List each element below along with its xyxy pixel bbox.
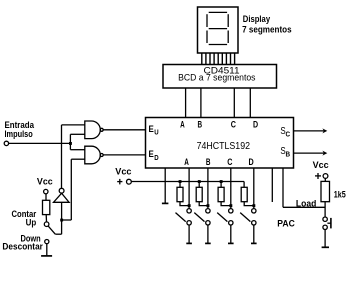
resistor R2 bottom lead [199,202,208,206]
switch S1 top contact [187,209,191,213]
resistor R5 body [43,200,50,214]
switch S2 top contact [206,209,210,213]
svg-text:Display: Display [243,14,270,24]
resistor R3 bottom lead [221,202,231,206]
resistor R6 1k5 body [321,181,330,201]
display segment d [209,44,227,46]
svg-text:A: A [184,157,189,167]
switch S2 arm [194,213,204,222]
wire junction vertical [69,134,71,149]
wire R6 down [324,202,326,217]
svg-text:C: C [227,157,233,167]
switch S3 arm [217,213,227,222]
resistor R5 lead bottom [45,215,47,222]
wire switch stub [55,233,61,235]
svg-text:A: A [180,120,185,130]
wire S3 to ground [230,225,232,243]
resistor R3 body [218,187,224,201]
switch S5 arm [48,226,55,234]
wire gate A upper input [62,124,85,126]
resistor R2 top lead [198,182,200,188]
wire pushbutton to ground [324,230,326,248]
wire to gate B upper input [70,149,84,151]
svg-text:D: D [253,120,258,130]
junction node R3 pin C [229,204,232,207]
svg-text:1k5: 1k5 [334,190,346,200]
display segment e [206,31,208,44]
svg-text:Vcc: Vcc [115,167,131,177]
ground pin wire mid [164,168,166,204]
nand gate U3A bubble [100,128,103,131]
junction node inverter output [60,219,63,222]
switch S1 bottom contact [187,221,191,225]
wire unused pin stub [271,168,273,202]
inverter U4 body [54,193,70,202]
display D1 body [198,7,239,53]
svg-text:C: C [231,120,237,130]
switch S4 arm [240,213,250,222]
wire load pin down [282,168,284,207]
ground bar below down contact [41,255,52,257]
ground bar S1 [186,242,192,244]
terminal Vcc contar [44,189,48,193]
wire CD4511 pin D to counter [249,88,251,118]
terminal Entrada Impulso [4,141,8,145]
svg-text:C: C [286,131,291,138]
wire pin A down [188,168,190,209]
switch S3 top contact [229,209,233,213]
svg-text:E: E [149,124,154,134]
resistor R4 body [241,187,247,201]
junction node R1 bus [179,180,182,183]
wire pin B down [207,168,209,209]
switch S4 bottom contact [252,221,256,225]
ground bar right [322,246,329,248]
pushbutton PAC actuator [330,218,332,229]
svg-text:Load: Load [296,199,316,209]
svg-text:Vcc: Vcc [37,177,53,187]
wire CD4511 pin C to counter [233,88,235,118]
junction node R4 pin D [252,204,255,207]
nand gate U3A body [85,121,100,139]
nand gate U3B bubble [100,154,103,157]
svg-text:D: D [249,157,255,167]
junction node R2 bus [198,180,201,183]
switch S2 bottom contact [206,221,210,225]
wire gate A output to EU [103,129,145,131]
pushbutton PAC top contact [323,217,327,221]
wire SB output arrow [294,152,326,154]
ground bar S3 [228,242,234,244]
wire S1 to ground [188,225,190,243]
nand gate U3B body [85,146,100,164]
switch S5 down contact [45,240,49,244]
wire gate A input down to inverter [61,125,63,188]
switch S3 bottom contact [229,221,233,225]
terminal Vcc mid [126,179,131,184]
inverter U4 bubble [59,188,64,193]
svg-text:PAC: PAC [277,218,295,228]
svg-text:BCD a 7 segmentos: BCD a 7 segmentos [178,73,256,84]
wire pin C down [230,168,232,209]
svg-text:74HCTLS192: 74HCTLS192 [197,141,251,152]
wire S4 to ground [253,225,255,243]
wire to gate A lower input [70,133,84,135]
svg-text:Descontar: Descontar [2,241,43,251]
terminal Vcc right [323,174,328,179]
IC U1 74HCTLS192 body [146,118,294,169]
junction node entrada [69,142,72,145]
resistor R3 top lead [220,182,222,188]
junction node R1 pin A [188,204,191,207]
resistor R1 bottom lead [180,202,189,206]
display segment f [206,14,208,27]
wire gate B lower input [71,158,85,160]
resistor R6 1k5 lead top [324,178,326,181]
switch S5 up contact [44,222,49,227]
svg-text:7 segmentos: 7 segmentos [242,25,292,35]
svg-text:U: U [154,130,158,137]
ground bar S4 [251,242,257,244]
wire Vcc bus [132,181,245,183]
svg-text:Up: Up [26,218,37,228]
display segment a [209,11,227,13]
resistor R1 body [177,187,183,201]
display segment g [209,28,227,30]
wire pin D down [253,168,255,209]
display segment b [227,14,229,27]
ground bar S2 [205,242,211,244]
svg-text:B: B [286,152,291,159]
svg-text:D: D [154,155,158,162]
junction node R2 pin B [207,204,210,207]
svg-text:Impulso: Impulso [5,129,34,139]
IC U2 CD4511 body [163,65,277,89]
resistor R1 top lead [179,182,181,188]
resistor R5 lead top [45,194,47,201]
svg-text:B: B [206,157,211,167]
wire inverter output [61,202,63,234]
wire gate B output to ED [103,154,145,156]
wire down contact to ground [46,244,48,256]
plus sign right [315,175,321,177]
display pins comb [202,53,235,65]
wire S2 to ground [207,225,209,243]
wire entrada to junction [9,142,71,144]
svg-text:Vcc: Vcc [313,160,329,170]
svg-text:E: E [149,149,154,159]
wire to inverter output node [62,219,72,221]
wire CD4511 pin A to counter [185,88,187,118]
ground bar mid [162,202,169,204]
wire CD4511 pin B to counter [200,88,202,118]
junction node R3 bus [220,180,223,183]
wire bus corner to R4 [243,182,245,188]
plus sign mid [117,181,122,183]
switch S4 top contact [252,209,256,213]
pushbutton PAC bottom contact [323,225,327,229]
svg-text:B: B [198,120,203,130]
resistor R4 bottom lead [244,202,254,206]
wire gate B input down [70,159,72,220]
display segment c [227,31,229,44]
resistor R2 body [196,187,202,201]
switch S1 arm [176,213,186,222]
wire SC output arrow [294,130,326,132]
wire load horizontal [283,206,325,208]
